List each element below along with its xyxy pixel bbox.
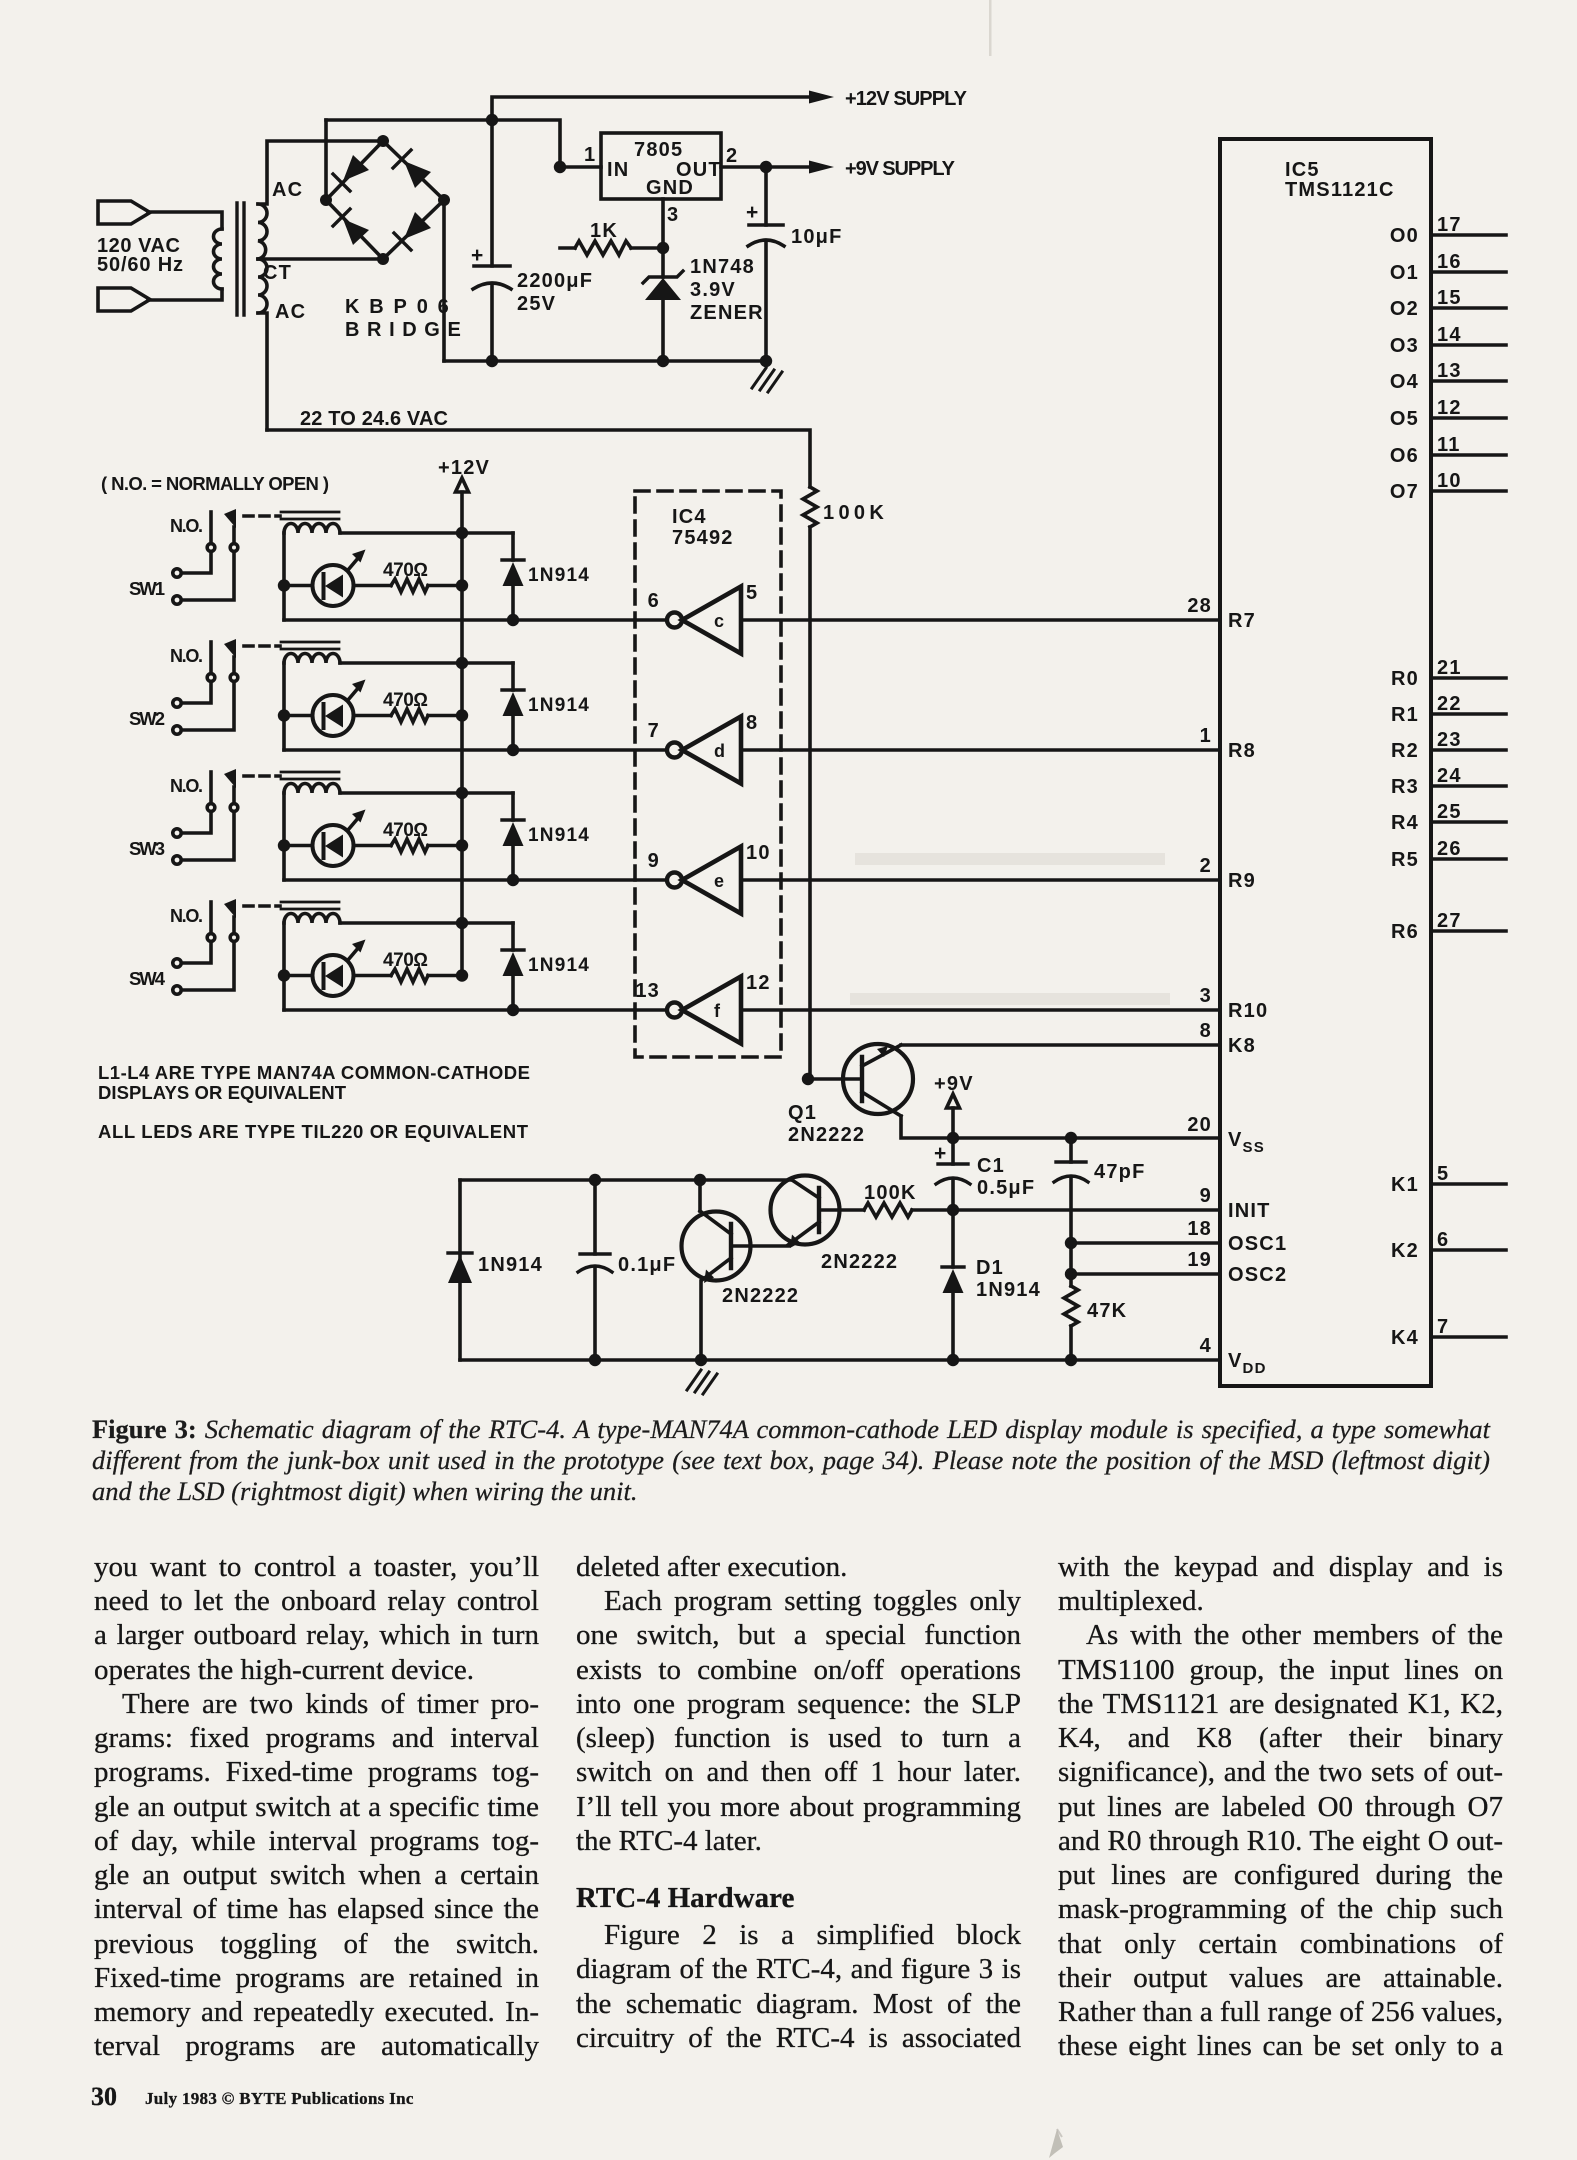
capacitor C1 top plate [938, 1162, 968, 1165]
relay driver row SW3 [170, 769, 1220, 914]
svg-text:R2: R2 [1391, 740, 1419, 762]
wire pin O4 [1431, 379, 1506, 383]
wire 0.1uF bottom lead [593, 1269, 597, 1360]
resistor 100K pullup [803, 487, 817, 527]
wire C1 bottom lead [951, 1181, 955, 1210]
wire Q2 base lead / INIT left [819, 1208, 864, 1212]
svg-text:12: 12 [746, 972, 771, 994]
transistor Q2 circle [771, 1176, 840, 1245]
svg-text:ZENER: ZENER [690, 302, 764, 324]
node junction +9V/VSS [947, 1132, 959, 1144]
wire D1 top lead [951, 1210, 955, 1267]
svg-text:K2: K2 [1391, 1240, 1419, 1262]
svg-text:O2: O2 [1390, 298, 1419, 320]
node junction 10uF/ground rail [760, 355, 772, 367]
svg-text:9: 9 [648, 850, 660, 872]
svg-text:+: + [746, 201, 759, 224]
wire 2200uF bottom lead [490, 284, 494, 361]
capacitor 10uF top plate [749, 223, 783, 227]
wire 7805 GND lead pin3 [661, 199, 665, 248]
svg-text:IC5: IC5 [1285, 159, 1320, 181]
svg-text:14: 14 [1437, 324, 1462, 346]
switch contact left [207, 544, 215, 552]
wire INIT line [912, 1208, 1220, 1212]
transistor Q3 base bar [729, 1224, 733, 1268]
svg-text:7: 7 [1437, 1316, 1449, 1338]
resistor 470 ohm [391, 579, 428, 592]
svg-text:22 TO 24.6 VAC: 22 TO 24.6 VAC [300, 408, 448, 430]
wire pin K4 [1431, 1335, 1506, 1339]
LED emission arrow [348, 557, 359, 570]
body column 2 [575, 0, 577, 1]
svg-text:K4: K4 [1391, 1327, 1419, 1349]
svg-text:5: 5 [746, 582, 758, 604]
svg-text:470Ω: 470Ω [383, 560, 428, 581]
wire pin O2 [1431, 306, 1506, 310]
wire 7805 OUT lead [721, 165, 766, 169]
svg-text:IN: IN [607, 159, 629, 181]
svg-text:10: 10 [746, 842, 771, 864]
svg-text:OSC2: OSC2 [1228, 1264, 1287, 1286]
node resistor/+12V rail junction [456, 579, 468, 591]
transformer T1 primary bottom lead [148, 289, 222, 300]
diode zener 1N748 cathode bar [643, 271, 683, 283]
ground symbol power supply [752, 368, 782, 392]
wire VDD ground rail [460, 1358, 1220, 1362]
wire pin O1 [1431, 270, 1506, 274]
wire OSC2 line [1071, 1272, 1220, 1276]
connector line plug top [98, 201, 150, 224]
capacitor 0.1uF top plate [580, 1252, 610, 1255]
svg-text:f: f [714, 1001, 721, 1021]
svg-text:2: 2 [1200, 855, 1212, 877]
ground symbol bottom [687, 1370, 717, 1394]
body column 1 [93, 0, 95, 1]
connector line plug bottom [98, 288, 150, 311]
svg-text:O0: O0 [1390, 225, 1419, 247]
node junction 0.1uF top [589, 1174, 601, 1186]
scan smudge band 1 [855, 853, 1165, 865]
wire bridge plus output to rail [324, 120, 328, 199]
svg-text:75492: 75492 [672, 527, 734, 549]
svg-text:L1-L4 ARE TYPE MAN74A COMMON-C: L1-L4 ARE TYPE MAN74A COMMON-CATHODE [98, 1062, 530, 1083]
wire terminal lower to pole [182, 552, 235, 601]
wire secondary center tap CT [258, 257, 383, 261]
transistor Q2 collector diagonal [792, 1180, 819, 1198]
svg-text:5: 5 [1437, 1163, 1449, 1185]
wire secondary top tap AC [258, 141, 383, 204]
resistor 47K [1064, 1286, 1078, 1326]
resistor 1K [575, 241, 631, 255]
wire pin O0 [1431, 233, 1506, 237]
wire LED to resistor [354, 584, 392, 588]
svg-text:SW3: SW3 [129, 838, 165, 859]
wire left branch vertical [458, 1180, 462, 1360]
wire +9V to VSS line [951, 1108, 955, 1138]
wire pin R2 [1431, 748, 1506, 752]
wire pin R6 [1431, 929, 1506, 933]
svg-text:17: 17 [1437, 214, 1462, 236]
node junction VSS/47pF [1065, 1132, 1077, 1144]
transistor Q1 emitter diagonal [862, 1045, 901, 1066]
wire Q3 emitter to ground rail [699, 1281, 703, 1360]
wire +12V distribution rail [460, 492, 464, 976]
wire terminal upper to pole [182, 552, 212, 574]
transformer T1 secondary winding lower [258, 259, 267, 313]
node junction 47pF/OSC1 [1065, 1237, 1077, 1249]
svg-text:3: 3 [667, 204, 679, 226]
svg-text:21: 21 [1437, 657, 1462, 679]
inverter triangle [682, 587, 741, 654]
svg-text:O1: O1 [1390, 262, 1419, 284]
wire Q1 collector to VSS line [901, 1116, 1220, 1138]
svg-text:19: 19 [1187, 1249, 1212, 1271]
wire 10uF bottom lead [764, 242, 768, 361]
node junction zener/ground rail [657, 355, 669, 367]
wire switch armature [232, 527, 236, 544]
wire pin K2 [1431, 1248, 1506, 1252]
wire pin R5 [1431, 857, 1506, 861]
transistor Q1 circle [843, 1044, 913, 1114]
svg-text:C1: C1 [977, 1155, 1005, 1177]
node 1N914/row line junction [507, 614, 519, 626]
svg-text:KBP06: KBP06 [345, 296, 450, 318]
svg-text:SW1: SW1 [129, 578, 165, 599]
inverter bubble [667, 613, 682, 628]
wire pin R3 [1431, 784, 1506, 788]
svg-text:AC: AC [272, 179, 303, 201]
wire unregulated DC rail [326, 120, 560, 167]
svg-text:1N914: 1N914 [478, 1254, 543, 1276]
capacitor C1 bottom plate [936, 1178, 970, 1184]
wire pin R1 [1431, 712, 1506, 716]
wire Q2 emitter to Q3 base [731, 1244, 789, 1248]
wire pin O3 [1431, 343, 1506, 347]
svg-text:1: 1 [1200, 725, 1212, 747]
svg-text:1: 1 [584, 144, 596, 166]
wire 2200uF top lead [490, 120, 494, 266]
relay coil L [284, 524, 340, 534]
wire pin K1 [1431, 1182, 1506, 1186]
svg-text:Q1: Q1 [788, 1102, 817, 1124]
svg-text:1K: 1K [590, 220, 618, 242]
svg-text:+12V: +12V [438, 457, 490, 479]
caption figure 3 [92, 1414, 1490, 1445]
wire pin R0 [1431, 676, 1506, 680]
svg-text:27: 27 [1437, 910, 1462, 932]
wire resistor to rail [428, 584, 462, 588]
svg-text:0.1μF: 0.1μF [618, 1254, 676, 1276]
transistor Q3 collector diagonal [700, 1211, 731, 1234]
wire LED anode lead [284, 584, 313, 588]
svg-text:2N2222: 2N2222 [821, 1251, 898, 1273]
node +12V supply arrowhead [809, 91, 834, 104]
svg-text:ALL LEDS ARE TYPE TIL220 OR EQ: ALL LEDS ARE TYPE TIL220 OR EQUIVALENT [98, 1121, 529, 1142]
wire 10uF top lead [764, 167, 768, 225]
svg-text:7: 7 [648, 720, 660, 742]
svg-text:N.O.: N.O. [170, 516, 203, 536]
svg-text:15: 15 [1437, 287, 1462, 309]
capacitor 10uF bottom plate [748, 240, 784, 246]
svg-text:R1: R1 [1391, 704, 1419, 726]
transistor Q2 base bar [817, 1188, 821, 1232]
node junction D1/VDD rail [947, 1354, 959, 1366]
node junction 47K/VDD rail [1065, 1354, 1077, 1366]
diode 1N914 left triangle [448, 1255, 472, 1283]
node +12V rail arrow [456, 478, 469, 492]
svg-text:OSC1: OSC1 [1228, 1233, 1287, 1255]
svg-text:25: 25 [1437, 801, 1462, 823]
capacitor 47pF bottom plate [1054, 1176, 1088, 1182]
node junction 2200uF/ground rail [486, 355, 498, 367]
node junction 0.1uF/rail [589, 1354, 601, 1366]
diode zener 1N748 triangle [645, 278, 681, 300]
svg-text:8: 8 [1200, 1020, 1212, 1042]
capacitor 0.1uF bottom plate [578, 1266, 612, 1272]
svg-text:IC4: IC4 [672, 506, 707, 528]
body column 3 [1057, 0, 1059, 1]
wire 47K top lead [1069, 1274, 1073, 1286]
capacitor C-2200uF bottom plate [473, 283, 511, 289]
wire coil to diode branch [340, 531, 513, 535]
svg-text:+12V SUPPLY: +12V SUPPLY [845, 88, 968, 110]
wire pin R4 [1431, 820, 1506, 824]
wire 1N914 bottom lead [511, 586, 515, 620]
LED cathode bar [322, 574, 326, 598]
svg-text:d: d [714, 741, 726, 761]
wire 1N914 top lead [511, 533, 515, 560]
svg-text:R0: R0 [1391, 668, 1419, 690]
svg-text:+9V: +9V [934, 1073, 974, 1095]
transformer T1 secondary winding upper [258, 204, 267, 259]
IC4 75492 dashed outline [635, 491, 781, 1057]
diode D1 cathode bar [942, 1265, 964, 1268]
wire +9V supply line [766, 165, 820, 169]
svg-text:13: 13 [1437, 360, 1462, 382]
svg-text:11: 11 [1437, 434, 1461, 456]
wire 100K to Q1 base [808, 527, 812, 1077]
node +9V arrow [947, 1094, 960, 1108]
node +9V supply arrowhead [809, 161, 834, 174]
LED circle [313, 565, 354, 606]
svg-text:7805: 7805 [634, 139, 683, 161]
svg-text:R9: R9 [1228, 870, 1256, 892]
svg-text:47K: 47K [1087, 1300, 1127, 1322]
footer [91, 2082, 117, 2112]
wire Q1 base lead [808, 1077, 862, 1081]
wire 47pF bottom lead [1069, 1179, 1073, 1243]
svg-text:28: 28 [1187, 595, 1212, 617]
node junction C1/INIT [947, 1204, 959, 1216]
relay driver row SW2 [170, 639, 1220, 784]
LED triangle [325, 575, 343, 598]
svg-text:9: 9 [1200, 1185, 1212, 1207]
svg-text:+: + [934, 1142, 946, 1165]
svg-text:+: + [471, 244, 484, 267]
wire pin O7 [1431, 489, 1506, 493]
svg-text:47pF: 47pF [1094, 1161, 1145, 1183]
node bridge top vertex [377, 135, 389, 147]
svg-text:K1: K1 [1391, 1174, 1419, 1196]
svg-text:24: 24 [1437, 765, 1462, 787]
wire secondary bottom tap [258, 313, 267, 430]
node junction OSC2/47K [1065, 1268, 1077, 1280]
wire row signal line [284, 618, 667, 622]
wire 1K left lead [560, 246, 575, 250]
wire 47pF top lead [1069, 1138, 1073, 1162]
svg-text:SW2: SW2 [129, 708, 165, 729]
svg-text:TMS1121C: TMS1121C [1285, 179, 1395, 201]
switch armature flag [224, 509, 236, 528]
svg-text:6: 6 [1437, 1229, 1449, 1251]
capacitor 47pF top plate [1056, 1160, 1086, 1163]
svg-text:O4: O4 [1390, 371, 1419, 393]
node LED branch junction [278, 579, 290, 591]
svg-text:6: 6 [648, 590, 660, 612]
svg-text:16: 16 [1437, 251, 1462, 273]
svg-text:R8: R8 [1228, 740, 1256, 762]
capacitor C-2200uF top plate [474, 264, 510, 268]
svg-text:10μF: 10μF [791, 226, 843, 248]
svg-text:O5: O5 [1390, 408, 1419, 430]
svg-text:1N748: 1N748 [690, 256, 755, 278]
svg-text:20: 20 [1187, 1114, 1212, 1136]
node junction OUT/10uF [760, 161, 772, 173]
wire ground rail bottom [444, 359, 766, 363]
regulator 7805 box [601, 133, 721, 199]
svg-text:13: 13 [635, 980, 660, 1002]
svg-text:R4: R4 [1391, 812, 1419, 834]
svg-text:D1: D1 [976, 1257, 1004, 1279]
wire switch pole left [209, 512, 213, 544]
svg-text:26: 26 [1437, 838, 1462, 860]
node bridge bottom vertex [377, 253, 389, 265]
wire pin O6 [1431, 453, 1506, 457]
svg-text:0.5μF: 0.5μF [977, 1177, 1035, 1199]
svg-text:K8: K8 [1228, 1035, 1256, 1057]
svg-text:VDD: VDD [1228, 1350, 1267, 1377]
node junction GND/1K/zener [657, 242, 669, 254]
svg-text:c: c [714, 611, 725, 631]
wire relay left branch [282, 533, 286, 620]
wire OSC1-OSC2 segment [1069, 1243, 1073, 1274]
node bridge right vertex [438, 194, 450, 206]
relay core line bottom [281, 518, 339, 521]
svg-text:CT: CT [263, 262, 292, 284]
svg-text:50/60 Hz: 50/60 Hz [97, 254, 183, 276]
svg-text:VSS: VSS [1228, 1129, 1265, 1156]
svg-text:( N.O. = NORMALLY OPEN ): ( N.O. = NORMALLY OPEN ) [101, 473, 329, 494]
wire zener bottom lead [661, 300, 665, 361]
wire 7805 IN lead [560, 165, 601, 169]
node junction IN/1K [554, 161, 566, 173]
svg-text:4: 4 [1200, 1335, 1212, 1357]
svg-text:GND: GND [646, 177, 694, 199]
node junction Q3 collector [694, 1174, 706, 1186]
op-amp IC5 TMS1121C box [1220, 139, 1431, 1386]
diode bridge bottom-right [404, 212, 431, 239]
svg-text:e: e [714, 871, 725, 891]
node Q1 base junction [802, 1073, 814, 1085]
svg-text:3.9V: 3.9V [690, 279, 736, 301]
wire zener top lead [661, 248, 665, 277]
mechanical link dashes [244, 514, 280, 518]
svg-text:8: 8 [746, 712, 758, 734]
svg-text:22: 22 [1437, 693, 1462, 715]
switch terminal upper [173, 569, 181, 577]
svg-text:INIT: INIT [1228, 1200, 1271, 1222]
wire collector bus [460, 1178, 792, 1182]
wire C1 top lead [951, 1138, 955, 1164]
svg-text:2200μF: 2200μF [517, 270, 593, 292]
wire OSC1 line [1071, 1241, 1220, 1245]
relay driver row SW1 [170, 509, 1220, 654]
transformer T1 primary winding [214, 229, 223, 289]
scan smudge band 2 [850, 993, 1170, 1005]
transformer T1 core line right [242, 203, 245, 315]
wire 1K right lead [631, 246, 663, 250]
diode bridge top-right [404, 161, 431, 188]
diode 1N914 clamp triangle [503, 562, 524, 586]
wire 0.1uF top lead [593, 1180, 597, 1254]
node coil/+12V rail junction [456, 527, 468, 539]
svg-text:3: 3 [1200, 985, 1212, 1007]
relay core line top [281, 511, 339, 514]
transistor Q2 emitter diagonal [788, 1222, 819, 1245]
diode 1N914 clamp bar [502, 558, 524, 561]
wire D1 bottom lead [951, 1293, 955, 1360]
wire Q1 emitter to K8 [901, 1043, 1220, 1047]
wire gate input to IC5 [741, 618, 1220, 622]
wire bridge minus output down [442, 200, 446, 361]
svg-text:25V: 25V [517, 293, 556, 315]
svg-text:18: 18 [1187, 1218, 1212, 1240]
svg-text:R10: R10 [1228, 1000, 1268, 1022]
svg-text:12: 12 [1437, 397, 1462, 419]
transformer T1 core line left [235, 203, 238, 315]
diode bridge top-left [343, 155, 369, 181]
svg-text:1N914: 1N914 [976, 1279, 1041, 1301]
transistor Q3 circle [682, 1212, 751, 1281]
svg-text:+9V SUPPLY: +9V SUPPLY [845, 158, 956, 180]
svg-text:AC: AC [275, 301, 306, 323]
relay driver row SW4 [170, 899, 1220, 1044]
svg-text:R3: R3 [1391, 776, 1419, 798]
diode bridge bottom-left [343, 219, 369, 245]
wire 47K bottom lead [1069, 1326, 1073, 1360]
diode D1 triangle [943, 1269, 964, 1293]
svg-text:O7: O7 [1390, 481, 1419, 503]
svg-text:100K: 100K [864, 1182, 917, 1204]
svg-text:R7: R7 [1228, 610, 1256, 632]
node bridge left vertex [320, 194, 332, 206]
transistor Q1 collector diagonal [862, 1092, 901, 1116]
scan artifact top line [989, 0, 992, 56]
svg-text:23: 23 [1437, 729, 1462, 751]
svg-text:1N914: 1N914 [528, 565, 590, 586]
svg-text:2N2222: 2N2222 [722, 1285, 799, 1307]
svg-text:R6: R6 [1391, 921, 1419, 943]
svg-text:100K: 100K [823, 502, 885, 524]
svg-text:2: 2 [726, 145, 738, 167]
wire 22-24.6VAC run [267, 430, 810, 487]
svg-text:DISPLAYS OR EQUIVALENT: DISPLAYS OR EQUIVALENT [98, 1082, 347, 1103]
bridge rectifier KBP06 diamond edges [326, 141, 444, 259]
scan pencil mark bottom right [1035, 2125, 1085, 2160]
switch terminal lower [173, 596, 181, 604]
node junction rail/+12V tap [486, 114, 498, 126]
resistor 100K init [864, 1203, 912, 1217]
